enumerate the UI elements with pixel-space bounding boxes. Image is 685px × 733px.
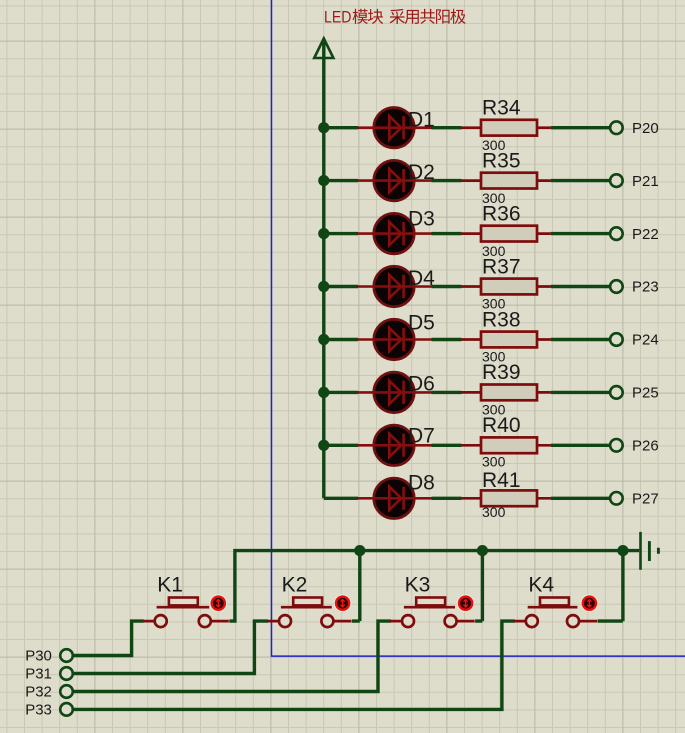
svg-text:R41: R41 bbox=[482, 469, 521, 492]
svg-text:P32: P32 bbox=[25, 684, 52, 701]
svg-text:P24: P24 bbox=[632, 332, 659, 349]
svg-text:D7: D7 bbox=[408, 425, 435, 448]
svg-text:P20: P20 bbox=[632, 120, 659, 137]
svg-text:D1: D1 bbox=[408, 108, 435, 131]
svg-text:P21: P21 bbox=[632, 173, 659, 190]
svg-text:P22: P22 bbox=[632, 226, 659, 243]
svg-text:P33: P33 bbox=[25, 702, 52, 719]
svg-text:P25: P25 bbox=[632, 385, 659, 402]
svg-text:300: 300 bbox=[482, 454, 506, 470]
svg-text:R34: R34 bbox=[482, 97, 521, 120]
svg-text:K3: K3 bbox=[405, 573, 431, 596]
svg-text:D2: D2 bbox=[408, 161, 435, 184]
svg-text:R35: R35 bbox=[482, 149, 521, 172]
svg-text:P23: P23 bbox=[632, 279, 659, 296]
svg-text:P30: P30 bbox=[25, 648, 52, 665]
svg-text:D6: D6 bbox=[408, 372, 435, 395]
svg-text:R40: R40 bbox=[482, 414, 521, 437]
svg-text:R38: R38 bbox=[482, 308, 521, 331]
svg-text:LED: LED bbox=[324, 9, 352, 27]
svg-text:K4: K4 bbox=[528, 573, 554, 596]
svg-text:R39: R39 bbox=[482, 361, 521, 384]
svg-text:300: 300 bbox=[482, 504, 506, 520]
svg-text:K1: K1 bbox=[157, 573, 183, 596]
svg-text:P26: P26 bbox=[632, 438, 659, 455]
svg-text:K2: K2 bbox=[282, 573, 308, 596]
svg-text:D8: D8 bbox=[408, 472, 435, 495]
svg-text:D3: D3 bbox=[408, 208, 435, 231]
svg-text:P31: P31 bbox=[25, 666, 52, 683]
svg-text:R37: R37 bbox=[482, 255, 521, 278]
svg-text:D4: D4 bbox=[408, 267, 435, 290]
svg-text:P27: P27 bbox=[632, 491, 659, 508]
svg-text:D5: D5 bbox=[408, 312, 435, 335]
svg-text:R36: R36 bbox=[482, 202, 521, 225]
